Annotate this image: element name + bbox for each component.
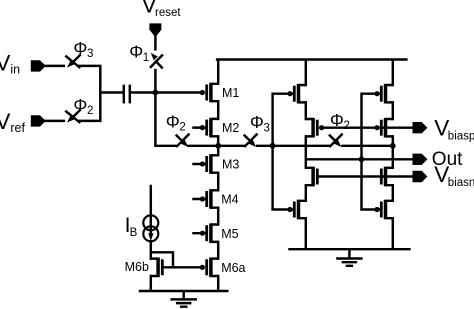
svg-text:1: 1: [143, 52, 149, 64]
svg-text:3: 3: [264, 122, 270, 134]
svg-text:Φ: Φ: [73, 38, 87, 58]
svg-text:B: B: [130, 227, 138, 239]
svg-text:2: 2: [87, 105, 93, 117]
svg-text:M6b: M6b: [125, 260, 149, 274]
svg-text:2: 2: [179, 122, 185, 134]
svg-text:V: V: [0, 51, 10, 76]
svg-text:Φ: Φ: [73, 95, 87, 115]
svg-text:3: 3: [87, 48, 93, 60]
svg-text:in: in: [10, 62, 20, 76]
svg-text:M4: M4: [221, 193, 238, 207]
svg-text:biasp: biasp: [448, 131, 474, 143]
svg-text:M3: M3: [222, 158, 239, 172]
svg-text:M5: M5: [221, 227, 238, 241]
svg-text:2: 2: [344, 120, 350, 132]
svg-text:ref: ref: [10, 121, 25, 135]
svg-text:V: V: [0, 109, 10, 134]
svg-text:Φ: Φ: [250, 112, 264, 132]
svg-text:reset: reset: [155, 7, 181, 19]
svg-text:M2: M2: [222, 121, 239, 135]
svg-text:biasn: biasn: [448, 177, 474, 189]
svg-text:Φ: Φ: [166, 111, 180, 131]
svg-text:Φ: Φ: [129, 42, 143, 62]
svg-text:M6a: M6a: [221, 261, 245, 275]
svg-text:M1: M1: [222, 86, 239, 100]
svg-text:Φ: Φ: [330, 110, 344, 130]
